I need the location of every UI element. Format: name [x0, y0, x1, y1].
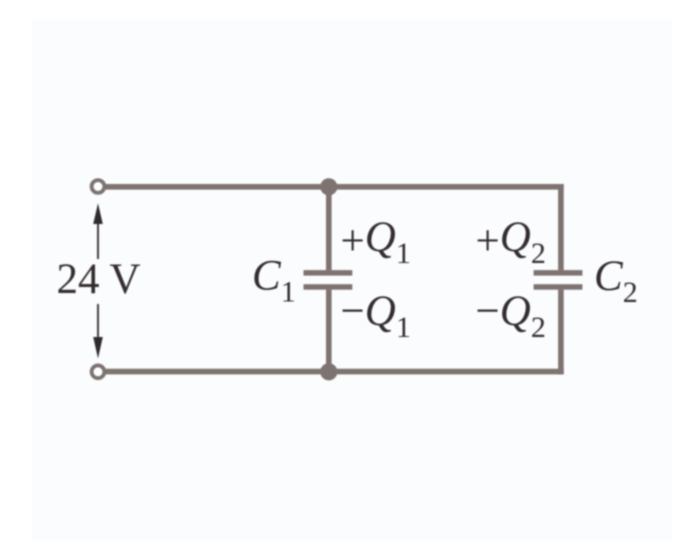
wire top — [103, 184, 564, 190]
node junction top — [320, 178, 337, 195]
capacitor C1 top plate — [304, 270, 353, 276]
wire middle branch upper — [326, 187, 332, 270]
wire right branch upper — [558, 184, 564, 270]
voltage arrow lower head — [93, 337, 103, 359]
voltage arrow upper head — [93, 203, 103, 224]
wire middle branch lower — [326, 290, 332, 372]
terminal bottom-left — [92, 365, 105, 378]
terminal top-left — [92, 180, 105, 193]
capacitor C2 bottom plate — [534, 284, 583, 290]
wire bottom — [103, 369, 564, 375]
capacitor C1 bottom plate — [304, 284, 353, 290]
voltage arrow upper line — [97, 210, 99, 259]
voltage arrow lower line — [97, 304, 99, 350]
svg-text:24 V: 24 V — [57, 256, 141, 303]
wire right branch lower — [558, 290, 564, 375]
node junction bottom — [320, 363, 337, 380]
capacitor C2 top plate — [534, 270, 583, 276]
